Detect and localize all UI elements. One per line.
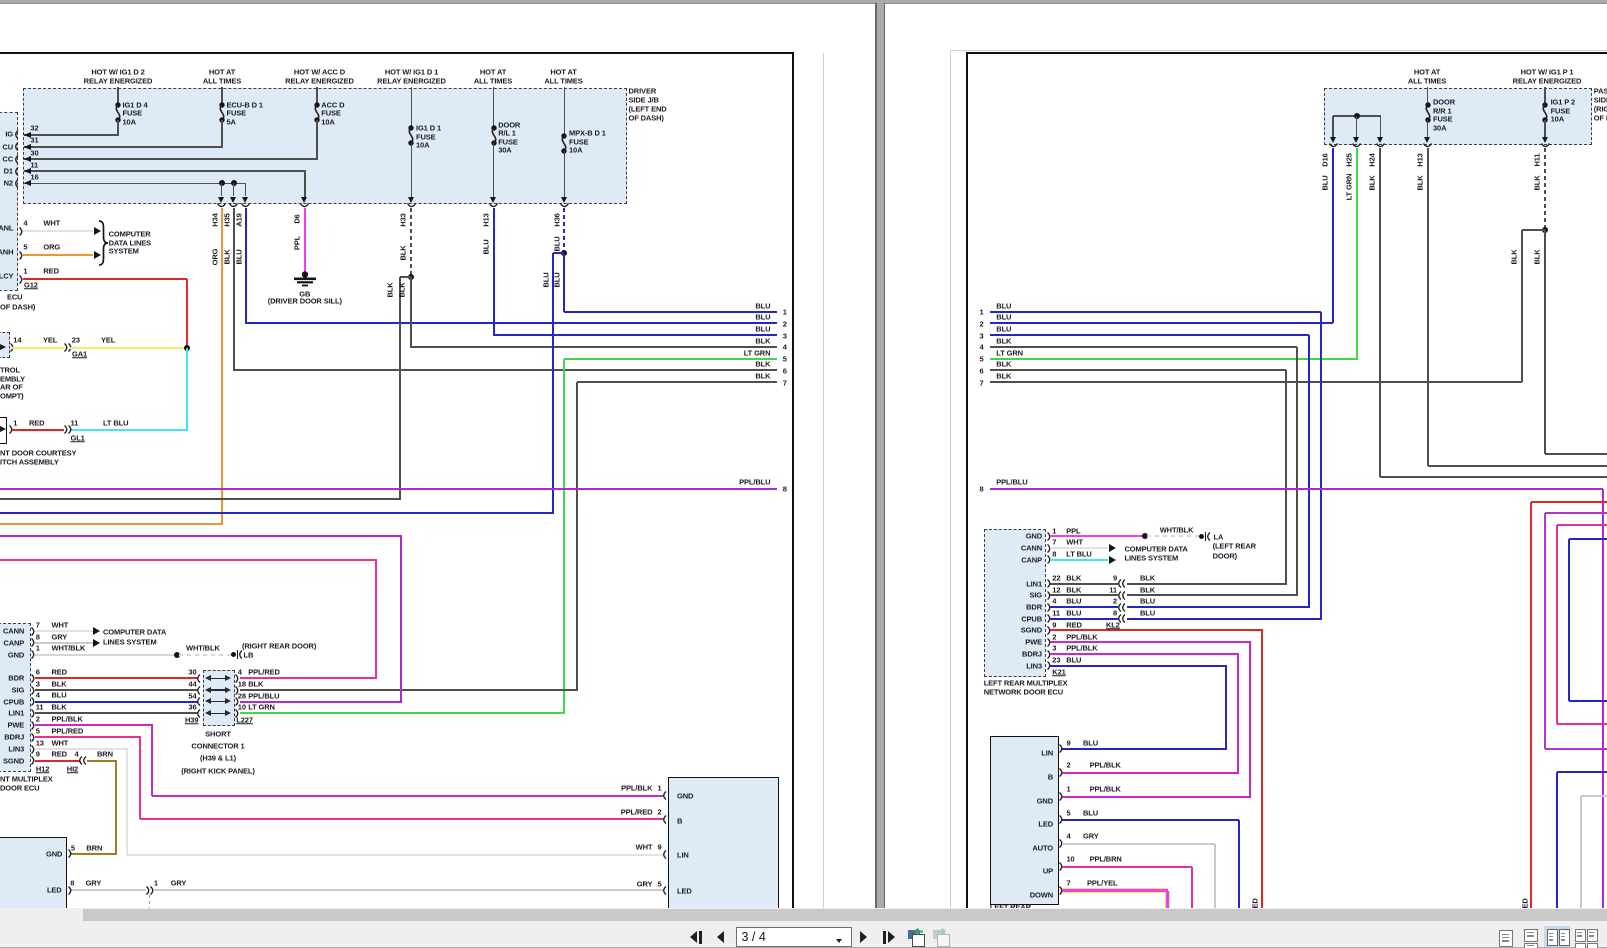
- hot label HOT AT ALL TIMES right: [1414, 68, 1440, 76]
- node pin16 bus junction H34: [219, 180, 225, 186]
- brace computer data lines: [98, 220, 110, 266]
- arrow CANP: [93, 639, 100, 647]
- label G12: [24, 281, 38, 289]
- wire BRN path: [87, 760, 117, 762]
- label H24: [1369, 153, 1377, 166]
- wire PPL/BLU row 8 left page: [0, 488, 777, 490]
- label BLU D16: [1322, 175, 1330, 190]
- fuse DOOR R/R 1: [1421, 102, 1435, 123]
- left rear multiplex network door ECU box K21: [984, 529, 1047, 677]
- lower box pin names: [1041, 749, 1053, 757]
- left box pin arcs: [68, 849, 74, 858]
- wire WHT CANN ecu: [35, 630, 94, 632]
- page gap borders: [875, 3, 876, 908]
- wire BLU H36 to row 1: [563, 253, 565, 312]
- label 5 BRN: [71, 844, 75, 852]
- label LB: [244, 651, 254, 659]
- wire fuse IG1 D1 to H33 exit: [411, 143, 413, 197]
- node bus junction: [1354, 113, 1360, 119]
- wire BLK LIN1 K21: [1050, 583, 1119, 585]
- page number box: [736, 927, 852, 947]
- label D6: [293, 214, 301, 223]
- fuse MPX-B D 1: [557, 133, 571, 153]
- wire BLU row 1 right and drop: [990, 311, 1321, 313]
- wire LT GRN row 5 and drop: [564, 358, 777, 360]
- pin number 11: [30, 161, 38, 169]
- wire RED frame right edge: [1531, 501, 1607, 503]
- arrow WHT to data lines: [94, 227, 101, 235]
- label HI2: [67, 766, 78, 774]
- label YEL 1: [43, 336, 57, 344]
- ground GB: [293, 271, 317, 289]
- hot label HOT W/ IG1 P 1: [1521, 68, 1574, 76]
- label 14: [13, 336, 21, 344]
- label GRY 2: [171, 879, 187, 887]
- layout icon single page: [1499, 930, 1513, 947]
- wire BLU row 2: [246, 322, 778, 324]
- wire BLK H24 to right edge: [1380, 476, 1607, 478]
- label LEFT REAR clipped: [990, 903, 1031, 911]
- label H11: [1533, 154, 1541, 167]
- ECU pin numbers: [36, 621, 40, 629]
- short connector 1 box: [203, 670, 236, 726]
- pin number 32: [30, 125, 38, 133]
- K21 inline labels: [1140, 574, 1155, 582]
- hot label HOT AT ALL TIMES (MPX-B): [550, 68, 576, 76]
- connector A10 box fragment: [0, 332, 10, 358]
- wire LT GRN short connector 10 row: [240, 712, 565, 714]
- short connector arcs and arrows: [195, 674, 201, 683]
- wire fuse DOOR R/R down: [1427, 120, 1429, 138]
- wire PPL frame right edge: [1545, 512, 1607, 514]
- wire BLK dashed from H11: [1544, 148, 1546, 229]
- layout icon continuous: [1524, 929, 1538, 942]
- J/B bus right page: [1333, 115, 1381, 117]
- wire WHT/BLK dashed right: [1147, 535, 1199, 537]
- label DRIVER SIDE J/B: [629, 88, 657, 96]
- arrow CANP K21: [1109, 556, 1116, 564]
- page box dropdown arrow: [836, 939, 842, 943]
- lower box pin numbers: [1067, 739, 1071, 747]
- wire RED BDR: [35, 677, 199, 679]
- wire PPL/RED frame right edge: [1557, 524, 1607, 526]
- right J/B exit arcs: [1329, 143, 1338, 149]
- left page sheet: [0, 3, 875, 909]
- layout icon two pages: [1547, 929, 1558, 946]
- connector pin arcs 32-16: [13, 130, 19, 139]
- wire GRY dashed stub: [149, 895, 150, 908]
- next view icon disabled: [933, 930, 945, 939]
- connector GL1 arcs: [64, 425, 70, 434]
- wire BLK H13 to right edge: [1428, 465, 1607, 467]
- label H33: [400, 213, 408, 226]
- wire LT GRN from H25: [1356, 148, 1358, 359]
- wire BLU from D16: [1332, 148, 1334, 323]
- bottom toolbar area: [0, 908, 1607, 947]
- label front multiplex door ecu clipped: [0, 775, 53, 783]
- wire BLU lower frame right edge: [1557, 771, 1607, 773]
- wire RED SGND: [35, 760, 81, 762]
- node PPL WHT/BLK junction: [1142, 533, 1148, 539]
- label BRN H12: [97, 750, 113, 758]
- label D16: [1322, 153, 1330, 166]
- fuse IG1 P 2: [1538, 102, 1552, 123]
- label WHT/BLK right: [1160, 526, 1194, 534]
- wire LT BLU junction down: [186, 348, 188, 430]
- label L227: [236, 716, 253, 724]
- label GA1: [72, 350, 87, 358]
- wire WHT/BLK GND solid: [35, 654, 176, 656]
- label LED left box: [47, 887, 62, 895]
- wire LT BLU CANP K21: [1050, 559, 1109, 561]
- label BLK branch 1: [1510, 249, 1518, 264]
- fuse DOOR R/L 1: [487, 125, 501, 145]
- fuse DOOR R/R 1 feed: [1427, 87, 1429, 103]
- J/B exit arrows: [218, 197, 224, 203]
- wire PPL/BLK PWE path: [35, 724, 153, 726]
- wire RED SGND path: [1050, 629, 1263, 631]
- wire BLU CPUB: [35, 701, 199, 703]
- wire YEL A10 to GA1: [12, 347, 64, 349]
- right box pin arcs: [661, 791, 667, 800]
- wire GRY LED row: [71, 889, 146, 891]
- bus drops D16 H25 H24: [1332, 116, 1334, 138]
- label LT GRN H25: [1345, 174, 1353, 201]
- left page faint inner border: [823, 53, 824, 908]
- label 8 GRY: [70, 879, 74, 887]
- wire BLU row 3 right and drop: [990, 334, 1309, 336]
- label GRY 1: [86, 879, 102, 887]
- label YEL 2: [101, 336, 115, 344]
- wire BLU CPUB 8 row: [1127, 618, 1322, 620]
- label LEFT REAR DOOR: [1213, 543, 1256, 551]
- arrow ORG to data lines: [94, 251, 101, 259]
- label WHT/BLK mid: [186, 645, 220, 653]
- splice LB: [231, 652, 236, 657]
- K21 inline connector arcs: [1116, 579, 1122, 588]
- label A19: [235, 213, 243, 226]
- K21 inline pin numbers: [1113, 574, 1117, 582]
- front multiplex door ECU connector box: [0, 623, 31, 771]
- right box pin numbers: [657, 784, 661, 792]
- label RED GL1: [29, 419, 44, 427]
- node pin16 bus junction H35: [231, 180, 237, 186]
- label LT BLU: [103, 419, 128, 427]
- wire PPL/BRN UP path: [1062, 866, 1192, 868]
- wire BLU BDR 2 row: [1127, 606, 1310, 608]
- wire ORG from H34: [221, 208, 223, 524]
- label BLK H33: [400, 245, 408, 260]
- K21 pin names: [1026, 532, 1042, 540]
- short connector pin numbers left: [188, 668, 196, 676]
- wire BLK row 6: [234, 369, 778, 371]
- wire BLU dashed from H36: [563, 208, 565, 253]
- fuse IG1 D 1 feed wire: [411, 87, 413, 127]
- fuse IG1 P 2 feed: [1544, 87, 1546, 103]
- pin names ANL ANH LCY: [0, 225, 13, 233]
- wire BLU H36 branch left: [553, 252, 564, 254]
- label H36: [553, 213, 561, 226]
- wire BLU CPUB K21: [1050, 618, 1119, 620]
- label COMPUTER DATA LINES ecu: [103, 629, 166, 637]
- node H36 junction: [561, 250, 567, 256]
- label COMPUTER DATA LINES SYSTEM top: [109, 230, 151, 238]
- wire BLK row 7 right: [990, 381, 1522, 383]
- label PPL: [293, 236, 301, 250]
- wire drop H35: [233, 183, 235, 196]
- label H35: [223, 213, 231, 226]
- wire PPL from D6: [304, 208, 306, 272]
- pin number 16: [30, 173, 38, 181]
- K21 wire color labels: [1066, 527, 1080, 535]
- fuse IG1 D 4 feed wire: [117, 87, 119, 103]
- arrow CANN K21: [1109, 544, 1116, 552]
- label 1 GL1: [13, 419, 17, 427]
- row labels right page: [996, 302, 1011, 310]
- labels power window control clipped: [0, 366, 20, 374]
- arrow courtesy switch: [0, 426, 6, 432]
- wire WHT/BLK dashed: [179, 654, 231, 656]
- left page diagram frame top: [0, 52, 794, 54]
- wire YEL GA1 to junction: [70, 347, 188, 349]
- label K21: [1052, 669, 1065, 677]
- label H13 right: [1416, 153, 1424, 166]
- node WHT/BLK junction: [174, 652, 180, 658]
- wire PPL/BLU row 8 right: [990, 488, 1603, 490]
- K21 pin arcs: [1047, 532, 1053, 541]
- right J/B exit arrows: [1330, 137, 1336, 143]
- scrollbar thumb: [83, 909, 1607, 921]
- row labels right side left page: [755, 302, 770, 310]
- layout icon two pages highlight: [1544, 926, 1571, 948]
- label BLU branch: [542, 272, 550, 287]
- wire BLK LIN1 9 row: [1127, 583, 1287, 585]
- label 1 GRY: [154, 879, 158, 887]
- wire BLK H11 branch: [1522, 229, 1546, 231]
- label SHORT CONNECTOR 1: [205, 730, 231, 738]
- wire drop A19: [245, 183, 247, 196]
- fuse MPX-B D 1 feed wire: [564, 87, 566, 135]
- fuse ACC D feed wire: [316, 87, 318, 103]
- wire BLU from A19: [245, 208, 247, 325]
- node H33 junction: [408, 274, 414, 280]
- fuse ACC D: [310, 102, 324, 123]
- nav last page button: [883, 931, 886, 944]
- wire BLU frame right edge: [1569, 538, 1607, 540]
- wire BLK H33 to row 4: [410, 277, 412, 348]
- wire BLK SIG 11 row: [1127, 594, 1298, 596]
- connector H12-HI2 arcs: [77, 756, 83, 765]
- wire LT BLU to GL1: [70, 429, 188, 431]
- label BLU A19: [235, 249, 243, 264]
- wire BLK SIG: [35, 689, 199, 691]
- label WHT/BLK 1: [50, 647, 52, 649]
- label H39: [185, 716, 198, 724]
- wire BLK from H13 right: [1427, 148, 1429, 466]
- wire BLU from H13: [493, 208, 495, 337]
- label front door courtesy switch clipped: [0, 449, 76, 457]
- bottom right power window box: [668, 777, 779, 912]
- wire fuse IG1 P2 down: [1544, 120, 1546, 138]
- row numbers left page: [783, 308, 787, 316]
- label BLK H11: [1533, 175, 1541, 190]
- right page sheet: [885, 3, 1607, 909]
- left rear power window motor box: [990, 736, 1059, 904]
- wire WHT CANN K21: [1050, 547, 1109, 549]
- label LEFT REAR MULTIPLEX: [984, 679, 1068, 687]
- left bottom ECU box: [0, 837, 67, 914]
- wire PPL/RED pin4 path: [0, 559, 377, 561]
- fuse DOOR R/L 1 feed wire: [493, 87, 495, 127]
- wire BLU LIN3 path right: [1050, 665, 1228, 667]
- arrow CANN: [93, 627, 100, 635]
- wire fuse IG1 D4 to pin 32: [117, 120, 119, 136]
- label COMPUTER DATA K21: [1125, 545, 1188, 553]
- wire PPL/BLK PWE path right: [1050, 641, 1252, 643]
- wire BLK row 4 right and drop: [990, 346, 1297, 348]
- label H13: [482, 213, 490, 226]
- label BLU H13: [482, 239, 490, 254]
- node computer-data branch labels top: [23, 219, 27, 227]
- fuse ECU-B D 1 feed wire: [221, 87, 223, 103]
- row numbers right page: [979, 308, 983, 316]
- fuse IG1 D 4: [111, 102, 125, 123]
- label H34: [211, 213, 219, 226]
- wire fuse ECU-B to pin 31: [221, 120, 223, 148]
- ECU pin arcs: [31, 627, 37, 636]
- label RIGHT REAR DOOR: [242, 642, 316, 650]
- hot label HOT W/ IG1 D 1: [385, 68, 438, 76]
- wire BLK LIN1: [35, 712, 199, 714]
- wire BLK from H35: [233, 208, 235, 372]
- wire PPL/RED BDRJ path: [35, 736, 142, 738]
- connector GRY arcs: [146, 886, 152, 895]
- label ECU clipped: [7, 294, 22, 302]
- wire pin 11 to D6 drop: [24, 170, 306, 172]
- wire BLU LED path: [1062, 819, 1239, 821]
- nav prev page button: [717, 931, 724, 943]
- label BLU main: [554, 272, 562, 287]
- connector GA1 arcs: [64, 343, 70, 352]
- right page diagram frame top: [966, 52, 1607, 54]
- K21 pin numbers: [1052, 527, 1056, 535]
- arrow into A10: [0, 344, 6, 350]
- previous view icon: [908, 930, 920, 939]
- hot label HOT W/ IG1 D 2: [91, 68, 144, 76]
- label H12: [36, 766, 49, 774]
- wire BLK H11 solid down: [1544, 230, 1546, 453]
- label GND left box: [46, 850, 62, 858]
- wire BLK H33 branch: [400, 276, 411, 278]
- hot label HOT AT ALL TIMES (ECU-B): [209, 68, 235, 76]
- nav next page button: [860, 931, 867, 943]
- junction block DRIVER SIDE J/B box: [23, 88, 626, 204]
- wire GRY lower frame right edge: [1581, 795, 1607, 797]
- wire WHT CANL: [23, 230, 94, 232]
- wire BLK from H24: [1379, 148, 1381, 477]
- hot label HOT AT ALL TIMES (DOOR R/L 1): [480, 68, 506, 76]
- wire pin 16 bus: [24, 183, 246, 185]
- label 11: [71, 419, 79, 427]
- short connector pin numbers right: [238, 668, 242, 676]
- right page faint inner border: [950, 51, 951, 908]
- wire BLK row 6 right and drop: [990, 369, 1285, 371]
- label BLK branch pair: [387, 282, 395, 297]
- wire LT GRN row 5 right: [990, 358, 1358, 360]
- label GL1: [71, 434, 85, 442]
- pin number 31: [30, 137, 38, 145]
- label KL2: [1106, 621, 1120, 629]
- short connector wire labels right: [248, 668, 280, 676]
- fuse IG1 D 1: [404, 125, 418, 145]
- junction block PASSENGER SIDE J/B box: [1324, 88, 1593, 145]
- wire BLU row 2 right: [990, 322, 1332, 324]
- label BLK main pair: [398, 282, 406, 297]
- label BLU H36: [553, 236, 561, 251]
- label BLK H13 right: [1416, 175, 1424, 190]
- wire fuse ACC D to pin 30: [316, 120, 318, 160]
- label 4 H12: [75, 750, 79, 758]
- wire ORG CANH: [23, 254, 94, 256]
- wire RED courtesy to GL1: [12, 429, 64, 431]
- wire WHT LIN3 path: [35, 748, 129, 750]
- wire BLK dashed from H33: [410, 208, 412, 276]
- label RED rotated bottom right: [1522, 898, 1530, 913]
- right box wire labels: [621, 784, 652, 792]
- label H25: [1345, 153, 1353, 166]
- label LA: [1214, 533, 1224, 541]
- connector box instrument panel (left, clipped): [0, 112, 18, 291]
- J/B exit arcs: [217, 203, 226, 209]
- door courtesy switch box fragment: [0, 417, 7, 444]
- wire BLU BDR K21: [1050, 606, 1119, 608]
- lower box pin arcs: [1059, 744, 1065, 753]
- label RED rotated bottom left: [1251, 898, 1259, 913]
- connector pin names: [5, 131, 13, 139]
- right box pin names: [677, 792, 693, 800]
- label ORG: [211, 249, 219, 266]
- node H11 junction: [1542, 227, 1548, 233]
- wire ORG to left edge: [0, 523, 223, 525]
- hot label HOT W/ ACC D: [294, 68, 345, 76]
- layout icon two page continuous: [1575, 929, 1586, 942]
- wire PPL/BLK BDRJ path right: [1050, 653, 1240, 655]
- pin arcs ANL ANH LCY: [19, 227, 25, 236]
- right page diagram frame left: [966, 53, 968, 908]
- label BLK H35: [223, 249, 231, 264]
- node red-yellow junction: [184, 345, 190, 351]
- label 23: [72, 336, 80, 344]
- wire drop H34: [221, 183, 223, 196]
- wire BLK H11 to right edge: [1545, 453, 1607, 455]
- ECU wire color labels: [52, 621, 69, 629]
- splice LA: [1199, 534, 1204, 539]
- wire GRY AUTO path: [1062, 843, 1215, 845]
- wire BLK short connector 18 to row7 drop: [240, 689, 578, 691]
- wire PPL/YEL DOWN path: [1062, 888, 1168, 893]
- lower box wire labels: [1083, 739, 1098, 747]
- fuse ECU-B D 1: [215, 102, 229, 123]
- wire RED MPXLCY: [23, 278, 187, 280]
- wire BLK SIG K21: [1050, 594, 1119, 596]
- left page diagram frame right: [792, 53, 794, 908]
- wire PPL/BLU pin28 path: [0, 535, 402, 537]
- wire PPL GND K21: [1050, 535, 1144, 537]
- wire BLU row 3: [494, 334, 778, 336]
- wire BLK row 7 and drop: [577, 381, 777, 383]
- wire fuse MPX-B to H36 exit: [564, 151, 566, 197]
- nav first page button: [690, 931, 697, 943]
